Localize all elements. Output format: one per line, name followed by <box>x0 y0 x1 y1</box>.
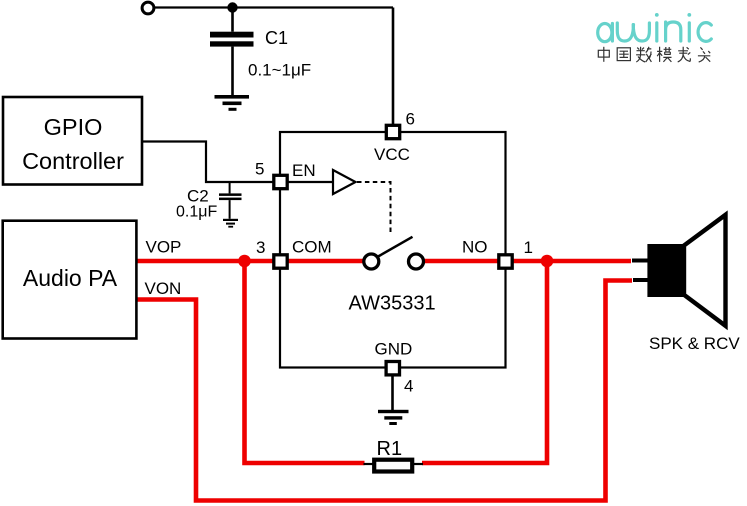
wire top rail <box>154 6 393 8</box>
svg-text:GPIO: GPIO <box>44 114 103 140</box>
svg-text:0.1~1μF: 0.1~1μF <box>248 61 311 80</box>
svg-text:AW35331: AW35331 <box>349 293 436 315</box>
svg-text:GND: GND <box>375 340 413 359</box>
svg-text:3: 3 <box>256 238 265 257</box>
ground C1 <box>215 95 250 111</box>
svg-text:5: 5 <box>255 160 264 179</box>
wire top rail down to VCC <box>392 8 395 126</box>
node junction NO/R1 <box>541 255 554 268</box>
node junction VOP/R1 <box>238 255 251 268</box>
wire C1 to ground <box>231 47 234 95</box>
char tou <box>698 47 710 62</box>
wire GND pin to ground <box>391 375 394 410</box>
capacitor C2 <box>219 182 242 219</box>
speaker LS1 body <box>647 244 685 297</box>
wire red left drop to R1 <box>245 261 365 463</box>
svg-text:SPK & RCV: SPK & RCV <box>649 334 740 353</box>
pin 1 NO <box>499 255 512 268</box>
ground C2 <box>223 219 238 228</box>
svg-text:EN: EN <box>292 161 316 180</box>
char guo <box>617 48 630 61</box>
letter i stem <box>655 23 658 41</box>
speaker stubs <box>632 259 649 263</box>
svg-text:4: 4 <box>404 377 413 396</box>
char long <box>678 47 691 62</box>
wire EN to buffer <box>287 181 333 183</box>
logo chinese tagline <box>598 47 710 62</box>
switch poles <box>377 237 412 257</box>
resistor R1 <box>364 463 375 465</box>
Audio PA box <box>3 221 137 339</box>
capacitor C1 <box>210 32 254 47</box>
svg-text:COM: COM <box>292 238 332 257</box>
wire GPIO to EN <box>142 142 274 183</box>
pin 3 COM <box>274 255 287 268</box>
svg-text:C1: C1 <box>265 28 288 48</box>
char zhong <box>598 47 609 62</box>
ground GND <box>378 410 409 425</box>
svg-text:1: 1 <box>524 238 533 257</box>
char shu <box>636 47 651 62</box>
wire junction to C1 <box>231 8 234 32</box>
wire dashed control line <box>357 182 391 233</box>
svg-text:VOP: VOP <box>146 238 182 257</box>
letter i dot 2 <box>687 13 691 17</box>
speaker LS1 horn <box>684 215 726 326</box>
svg-text:NO: NO <box>462 238 488 257</box>
letter w <box>617 23 633 41</box>
svg-text:VON: VON <box>145 279 182 298</box>
letter n <box>666 22 681 41</box>
svg-text:6: 6 <box>406 110 415 129</box>
pin 4 GND <box>386 362 399 375</box>
letter a <box>598 23 612 41</box>
letter c <box>698 23 711 42</box>
logo awinic <box>598 13 712 42</box>
letter i dot <box>655 13 659 17</box>
svg-text:VCC: VCC <box>374 145 410 164</box>
pin 6 VCC <box>386 125 399 138</box>
svg-text:Audio PA: Audio PA <box>23 265 118 291</box>
char mo <box>657 47 671 62</box>
svg-text:0.1μF: 0.1μF <box>176 204 217 221</box>
svg-text:Controller: Controller <box>22 148 124 174</box>
letter i stem 2 <box>688 23 691 41</box>
buffer U1 driver <box>333 170 356 194</box>
wire VON red path <box>136 281 632 501</box>
svg-text:R1: R1 <box>377 438 403 460</box>
node junction C1 <box>227 2 237 12</box>
wire red COM to switch and NO to speaker <box>424 259 631 264</box>
IC U1 AW35331 box <box>280 132 506 368</box>
GPIO Controller box <box>3 97 142 185</box>
pin 5 EN <box>274 175 287 188</box>
wire red bottom from R1 to right riser <box>422 261 547 463</box>
terminal input <box>142 2 154 14</box>
wire VOP red from Audio PA to COM <box>136 259 364 264</box>
